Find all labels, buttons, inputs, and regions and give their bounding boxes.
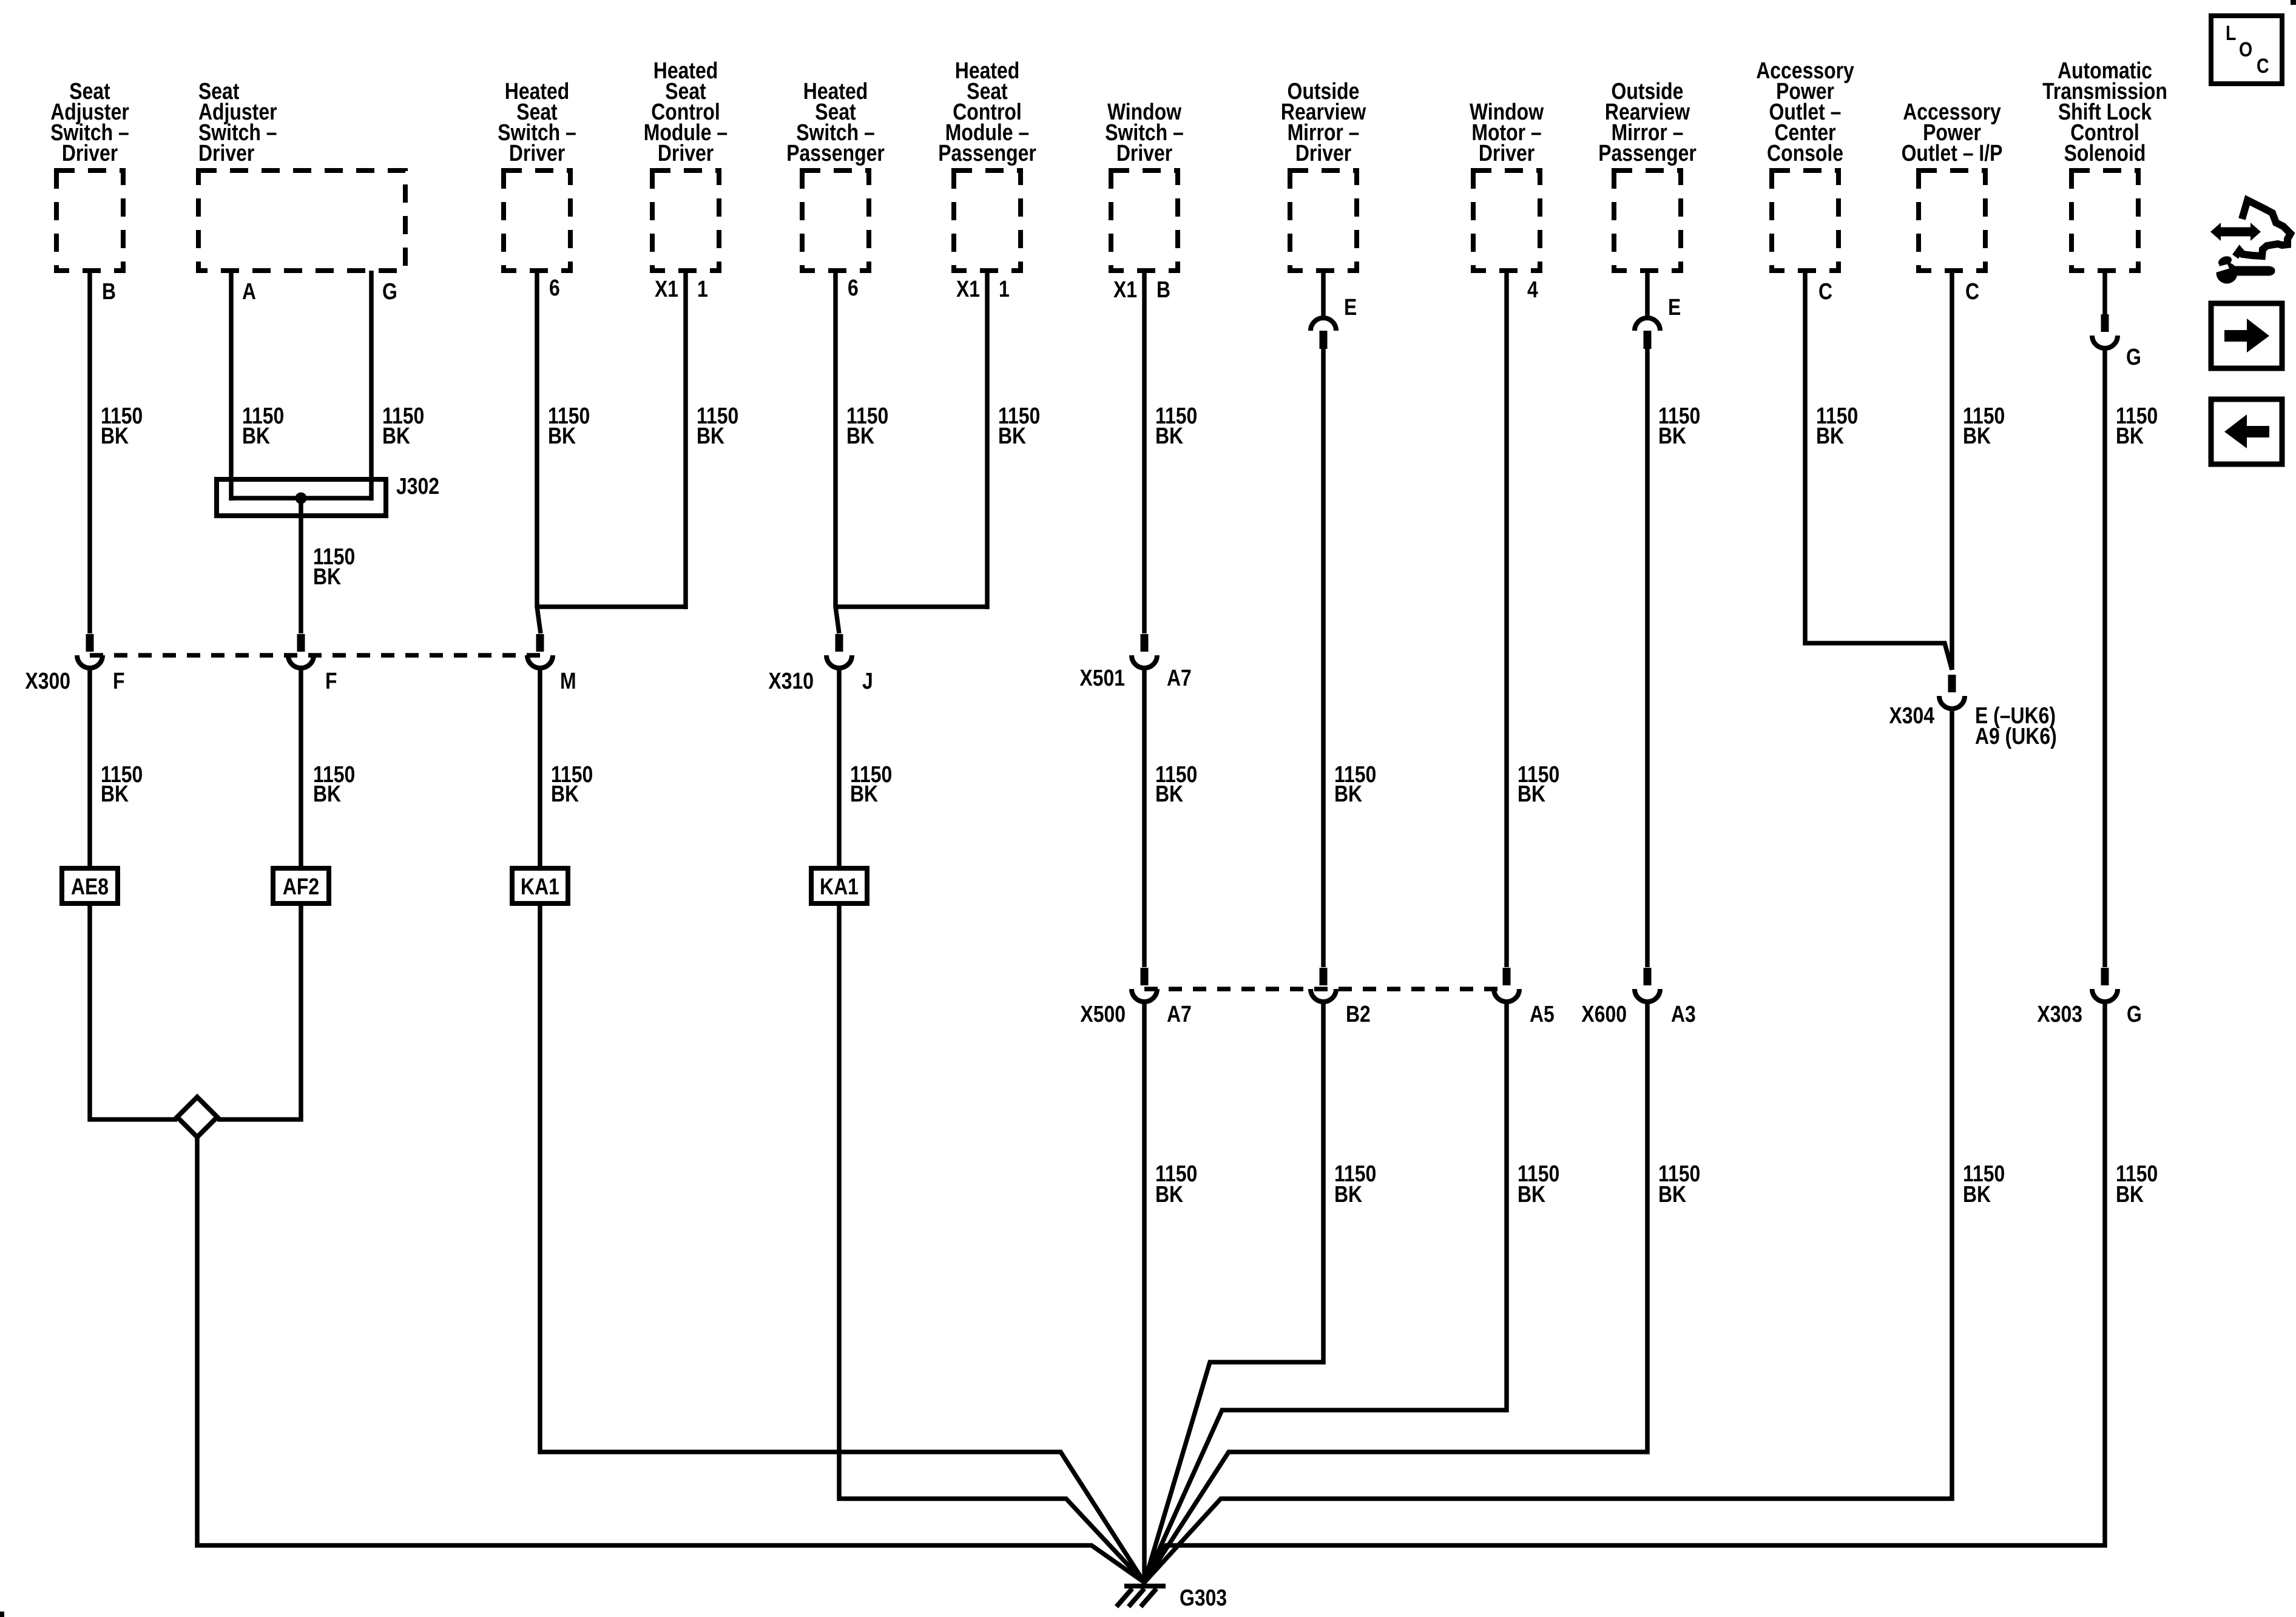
svg-text:X501: X501	[1079, 666, 1125, 691]
pin 6 label (heated seat switch passenger)	[848, 275, 859, 301]
label J (X310)	[862, 669, 873, 694]
wire label 1150 BK (mirror passenger)	[1658, 403, 1700, 449]
svg-text:Console: Console	[1767, 141, 1843, 166]
svg-text:Driver: Driver	[1116, 141, 1172, 166]
svg-text:A7: A7	[1167, 666, 1192, 691]
wire: pin G down to splice J302	[369, 271, 374, 501]
pin 1 label (module driver)	[697, 277, 708, 302]
wire: solenoid stub to connector G	[2102, 271, 2107, 316]
svg-text:6: 6	[549, 275, 560, 301]
pin X1 connector label (module passenger)	[956, 277, 980, 302]
wire label 1150 BK (mirror driver mid)	[1334, 762, 1376, 807]
harness connector KA1 (driver)	[512, 868, 568, 903]
wire: splice diamond to ground G303	[197, 1137, 1144, 1582]
connector X310 cavity J (heated seat passenger)	[826, 634, 852, 668]
svg-text:BK: BK	[2116, 1182, 2144, 1207]
component box: Heated Seat Control Module - Driver (pin X1-1)	[644, 58, 728, 271]
pin G label	[382, 279, 397, 305]
wire label 1150 BK (solenoid bottom)	[2116, 1161, 2158, 1207]
svg-text:BK: BK	[1963, 424, 1991, 449]
svg-text:Driver: Driver	[1479, 141, 1535, 166]
page corner mark top right	[2291, 0, 2296, 5]
connector X300 cavity M (heated seat driver)	[527, 634, 553, 668]
wire label 1150 BK (mirror driver bottom)	[1334, 1161, 1376, 1207]
wire label 1150 BK (mirror passenger bottom)	[1658, 1161, 1700, 1207]
svg-text:Solenoid: Solenoid	[2064, 141, 2146, 166]
connector X500 cavity B2	[1311, 968, 1336, 1002]
svg-text:BK: BK	[2116, 424, 2144, 449]
svg-text:F: F	[113, 669, 125, 694]
wire label 1150 BK (seat adj B upper)	[101, 403, 143, 449]
wire: Seat Adjuster Switch B to X300	[87, 271, 92, 633]
label A9 (UK6)	[1975, 724, 2057, 749]
wire: solenoid down to X303	[2102, 350, 2107, 967]
wire: AE8 down to splice diamond	[90, 906, 177, 1119]
wire label 1150 BK (window switch)	[1155, 403, 1197, 449]
label M (X300)	[560, 669, 576, 694]
wire: mirror passenger stub to connector E	[1645, 271, 1650, 318]
svg-text:J302: J302	[396, 474, 439, 499]
wire: mirror passenger X600 to ground G303	[1144, 1004, 1647, 1582]
svg-text:X304: X304	[1889, 703, 1934, 729]
svg-text:6: 6	[848, 275, 859, 301]
harness connector KA1 (passenger)	[811, 868, 867, 903]
connector X501 cavity A7 (window switch)	[1132, 634, 1157, 668]
svg-text:BK: BK	[1155, 781, 1184, 807]
svg-text:C: C	[1818, 279, 1832, 305]
wire: window switch driver down to X501	[1142, 271, 1147, 633]
svg-text:O: O	[2239, 38, 2252, 61]
label X303	[2037, 1002, 2082, 1027]
wire label 1150 BK (seat adj B lower)	[101, 762, 143, 807]
wire: I/P outlet down to X304	[1950, 271, 1954, 670]
svg-text:X600: X600	[1581, 1002, 1627, 1027]
connector X300 cavity F (seat adj B)	[77, 634, 103, 668]
connector X600 cavity A3	[1635, 968, 1660, 1002]
pin E label (mirror driver)	[1344, 295, 1357, 320]
label X600	[1581, 1002, 1627, 1027]
wire label 1150 BK (window switch bottom)	[1155, 1161, 1197, 1207]
component box: Heated Seat Control Module - Passenger (pin X1-1)	[938, 58, 1036, 271]
svg-text:BK: BK	[1658, 1182, 1687, 1207]
svg-text:Driver: Driver	[62, 141, 118, 166]
svg-text:X303: X303	[2037, 1002, 2082, 1027]
wire: junction HS switch/module passenger	[836, 604, 987, 609]
svg-text:BK: BK	[382, 424, 411, 449]
svg-text:Driver: Driver	[1295, 141, 1351, 166]
wire: pin A down to splice J302	[229, 271, 234, 501]
label F (X300 seat adj B)	[113, 669, 125, 694]
svg-text:BK: BK	[551, 781, 579, 807]
wire: window motor driver down to X500 A5	[1504, 271, 1509, 967]
svg-text:A7: A7	[1167, 1002, 1192, 1027]
svg-text:BK: BK	[850, 781, 879, 807]
label X300	[25, 669, 70, 694]
svg-text:Driver: Driver	[658, 141, 714, 166]
svg-text:E: E	[1668, 295, 1681, 320]
svg-text:KA1: KA1	[521, 874, 559, 900]
page corner mark bottom left	[0, 1612, 4, 1617]
pin C label (center console outlet)	[1818, 279, 1832, 305]
pin X1 connector label (window switch)	[1113, 277, 1137, 303]
wire: X300 M down to KA1 driver	[538, 670, 542, 867]
wire label 1150 BK (pin G)	[382, 403, 424, 449]
svg-text:B: B	[102, 279, 116, 305]
svg-text:X310: X310	[768, 669, 814, 694]
svg-text:BK: BK	[1963, 1182, 1991, 1207]
svg-text:Driver: Driver	[509, 141, 565, 166]
svg-text:X1: X1	[956, 277, 980, 302]
svg-text:BK: BK	[101, 781, 129, 807]
pin 4 label (window motor)	[1527, 277, 1538, 303]
svg-text:M: M	[560, 669, 576, 694]
svg-text:Outlet – I/P: Outlet – I/P	[1902, 141, 2003, 166]
label X500	[1080, 1002, 1126, 1027]
wire: mirror passenger down to X600 A3	[1645, 349, 1650, 967]
ground G303 symbol	[1116, 1586, 1166, 1607]
wire label 1150 BK (I/P outlet)	[1963, 403, 2005, 449]
svg-text:BK: BK	[1518, 1182, 1546, 1207]
svg-text:BK: BK	[1155, 424, 1184, 449]
pin 6 label (heated seat switch driver)	[549, 275, 560, 301]
dashed connector line X300 row	[90, 653, 540, 658]
svg-text:G303: G303	[1180, 1585, 1227, 1611]
label B2 (X500)	[1346, 1002, 1371, 1027]
wire label 1150 BK (J302 lower)	[313, 762, 355, 807]
pin 1 label (module passenger)	[999, 277, 1010, 302]
connector G (solenoid)	[2092, 314, 2118, 348]
component box: Accessory Power Outlet - I/P (pin C)	[1902, 100, 2003, 271]
wire: X300 F (J302) down to AF2	[299, 670, 303, 867]
svg-text:Driver: Driver	[198, 141, 254, 166]
wire: KA1 passenger to ground G303	[839, 906, 1144, 1582]
component box: Seat Adjuster Switch - Driver (pin B)	[50, 79, 129, 271]
wire label 1150 BK (HS driver lower)	[551, 762, 593, 807]
component box: Window Motor - Driver (pin 4)	[1470, 100, 1544, 271]
connector E (mirror passenger)	[1635, 318, 1660, 349]
svg-text:BK: BK	[697, 424, 725, 449]
pin G label (solenoid)	[2126, 345, 2141, 370]
wire label 1150 BK (HS switch passenger)	[846, 403, 888, 449]
component box: Heated Seat Switch - Passenger (pin 6)	[786, 79, 885, 271]
connector X300 cavity F (J302 wire)	[288, 634, 314, 668]
component box: Outside Rearview Mirror - Passenger (pin E)	[1598, 79, 1697, 271]
svg-text:1: 1	[697, 277, 708, 302]
wire label 1150 BK (HS switch driver)	[548, 403, 590, 449]
svg-text:E: E	[1344, 295, 1357, 320]
wire: mirror driver stub to connector E	[1321, 271, 1326, 318]
svg-text:G: G	[382, 279, 397, 305]
svg-text:Passenger: Passenger	[786, 141, 885, 166]
svg-text:A3: A3	[1671, 1002, 1696, 1027]
svg-text:BK: BK	[548, 424, 576, 449]
wire label 1150 BK (solenoid upper)	[2116, 403, 2158, 449]
label A7 (X501)	[1167, 666, 1192, 691]
pin A label	[242, 279, 256, 305]
wire label 1150 BK (pin A)	[242, 403, 284, 449]
connector E (mirror driver)	[1311, 318, 1336, 349]
wire: X300 F down to AE8	[87, 670, 92, 867]
svg-text:A5: A5	[1530, 1002, 1555, 1027]
component box: Accessory Power Outlet - Center Console (pin C)	[1756, 58, 1854, 271]
wire: center console outlet to X304 junction	[1805, 271, 1952, 670]
dashed connector line X500 row	[1144, 987, 1507, 991]
wire label 1150 BK (center console outlet)	[1816, 403, 1858, 449]
wire label 1150 BK (window motor bottom)	[1518, 1161, 1559, 1207]
svg-text:B: B	[1156, 277, 1170, 303]
wire label 1150 BK (below J302)	[313, 544, 355, 590]
pin B label (window switch)	[1156, 277, 1170, 303]
label A3 (X600)	[1671, 1002, 1696, 1027]
wire: HS switch passenger pin 6 down to X310 J	[836, 271, 839, 633]
harness connector AE8	[62, 868, 118, 903]
component box: Seat Adjuster Switch - Driver (pins A,G)	[198, 79, 405, 271]
wire: HS control module driver down	[683, 271, 688, 609]
wire: HS control module passenger down	[985, 271, 990, 609]
component box: Window Switch - Driver (pin X1-B)	[1105, 100, 1184, 271]
svg-text:BK: BK	[1658, 424, 1687, 449]
label G303	[1180, 1585, 1227, 1611]
wire: mirror driver X500 to ground G303	[1144, 1004, 1323, 1582]
svg-text:1: 1	[999, 277, 1010, 302]
label X310	[768, 669, 814, 694]
svg-text:KA1: KA1	[820, 874, 859, 900]
connector X304 pin E/A9	[1939, 675, 1965, 709]
svg-text:F: F	[325, 669, 337, 694]
wire label 1150 BK (HS passenger lower)	[850, 762, 892, 807]
wire: X310 J down to KA1 passenger	[837, 670, 842, 867]
label A7 (X500)	[1167, 1002, 1192, 1027]
pin B label	[102, 279, 116, 305]
svg-text:A: A	[242, 279, 256, 305]
svg-text:X1: X1	[655, 277, 678, 302]
wire: heated seat switch driver pin 6 down to X300 M	[537, 271, 541, 633]
label G (X303)	[2127, 1002, 2142, 1027]
svg-text:BK: BK	[1816, 424, 1845, 449]
icon: back arrow box	[2211, 399, 2282, 464]
wire: mirror driver down to X500 B2	[1321, 349, 1326, 967]
wire: X304 down to ground run	[1144, 710, 1952, 1582]
wire: KA1 driver to ground G303	[540, 906, 1144, 1582]
icon: harness routing (double arrow, outline, wrench)	[2210, 200, 2291, 284]
wire: solenoid X303 to ground G303	[1144, 1004, 2105, 1582]
icon: forward arrow box	[2211, 303, 2282, 368]
svg-text:BK: BK	[1334, 781, 1363, 807]
svg-text:Passenger: Passenger	[938, 141, 1036, 166]
wire label 1150 BK (HS module passenger)	[998, 403, 1040, 449]
harness connector AF2	[273, 868, 329, 903]
svg-text:J: J	[862, 669, 873, 694]
svg-text:BK: BK	[846, 424, 875, 449]
wire: window switch X500 to ground G303	[1142, 1004, 1147, 1586]
svg-text:X1: X1	[1113, 277, 1137, 303]
svg-text:A9 (UK6): A9 (UK6)	[1975, 724, 2057, 749]
svg-text:BK: BK	[313, 564, 342, 590]
connector X500 cavity A5	[1494, 968, 1519, 1002]
svg-text:BK: BK	[1518, 781, 1546, 807]
wire: X501 down to X500	[1142, 670, 1147, 967]
svg-text:G: G	[2126, 345, 2141, 370]
pin E label (mirror passenger)	[1668, 295, 1681, 320]
svg-text:BK: BK	[101, 424, 129, 449]
label A5 (X500)	[1530, 1002, 1555, 1027]
svg-text:C: C	[1965, 279, 1979, 305]
svg-text:L: L	[2226, 22, 2236, 45]
label F (X300 J302 wire)	[325, 669, 337, 694]
svg-text:AF2: AF2	[283, 874, 319, 900]
component box: Heated Seat Switch - Driver (pin 6)	[498, 79, 576, 271]
svg-text:4: 4	[1527, 277, 1538, 303]
wire: window motor X500 to ground G303	[1144, 1004, 1507, 1582]
svg-text:C: C	[2257, 55, 2269, 78]
splice diamond (seat adjuster grounds)	[177, 1097, 217, 1137]
svg-text:B2: B2	[1346, 1002, 1371, 1027]
svg-text:Passenger: Passenger	[1598, 141, 1697, 166]
wire label 1150 BK (HS module driver)	[697, 403, 738, 449]
svg-text:AE8: AE8	[71, 874, 109, 900]
svg-text:X300: X300	[25, 669, 70, 694]
component box: Automatic Transmission Shift Lock Control Solenoid (pin G)	[2042, 58, 2167, 271]
pin C label (I/P outlet)	[1965, 279, 1979, 305]
svg-text:BK: BK	[313, 781, 342, 807]
wire label 1150 BK (X304 lower)	[1963, 1161, 2005, 1207]
svg-text:X500: X500	[1080, 1002, 1126, 1027]
splice pack J302	[217, 474, 439, 516]
label E (-UK6)	[1975, 703, 2056, 729]
connector X303 cavity G	[2092, 968, 2118, 1002]
label X304	[1889, 703, 1934, 729]
wire label 1150 BK (window motor mid)	[1518, 762, 1559, 807]
wire: AF2 down to splice diamond	[217, 906, 301, 1119]
label X501	[1079, 666, 1125, 691]
connector X500 cavity A7	[1132, 968, 1157, 1002]
svg-text:G: G	[2127, 1002, 2142, 1027]
svg-text:BK: BK	[242, 424, 271, 449]
icon: LOC reference box	[2211, 16, 2282, 84]
wire: J302 splice down to X300 F	[299, 498, 303, 633]
component box: Outside Rearview Mirror - Driver (pin E)	[1281, 79, 1366, 271]
wire label 1150 BK (window switch mid)	[1155, 762, 1197, 807]
svg-text:BK: BK	[1155, 1182, 1184, 1207]
wire: junction HS switch/module driver	[537, 604, 686, 609]
svg-text:BK: BK	[998, 424, 1027, 449]
pin X1 connector label (module driver)	[655, 277, 678, 302]
svg-text:BK: BK	[1334, 1182, 1363, 1207]
